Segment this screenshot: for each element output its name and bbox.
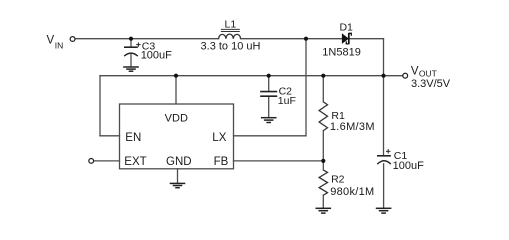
- svg-text:100uF: 100uF: [393, 160, 424, 172]
- svg-text:FB: FB: [214, 156, 229, 168]
- svg-text:EXT: EXT: [124, 156, 146, 168]
- svg-text:V: V: [411, 65, 419, 77]
- svg-text:3.3 to 10 uH: 3.3 to 10 uH: [201, 41, 261, 53]
- svg-text:IN: IN: [55, 40, 64, 50]
- svg-text:EN: EN: [125, 132, 141, 144]
- svg-text:100uF: 100uF: [141, 50, 172, 62]
- svg-text:1N5819: 1N5819: [322, 47, 361, 59]
- svg-text:LX: LX: [212, 132, 226, 144]
- svg-text:VDD: VDD: [165, 112, 188, 124]
- svg-text:R2: R2: [331, 174, 345, 186]
- svg-text:GND: GND: [166, 156, 192, 168]
- svg-text:1uF: 1uF: [278, 95, 296, 107]
- svg-text:D1: D1: [339, 21, 353, 33]
- svg-text:980k/1M: 980k/1M: [330, 186, 374, 198]
- svg-text:V: V: [47, 35, 55, 47]
- svg-text:1.6M/3M: 1.6M/3M: [330, 121, 375, 133]
- svg-text:3.3V/5V: 3.3V/5V: [411, 78, 451, 90]
- svg-text:L1: L1: [225, 19, 237, 31]
